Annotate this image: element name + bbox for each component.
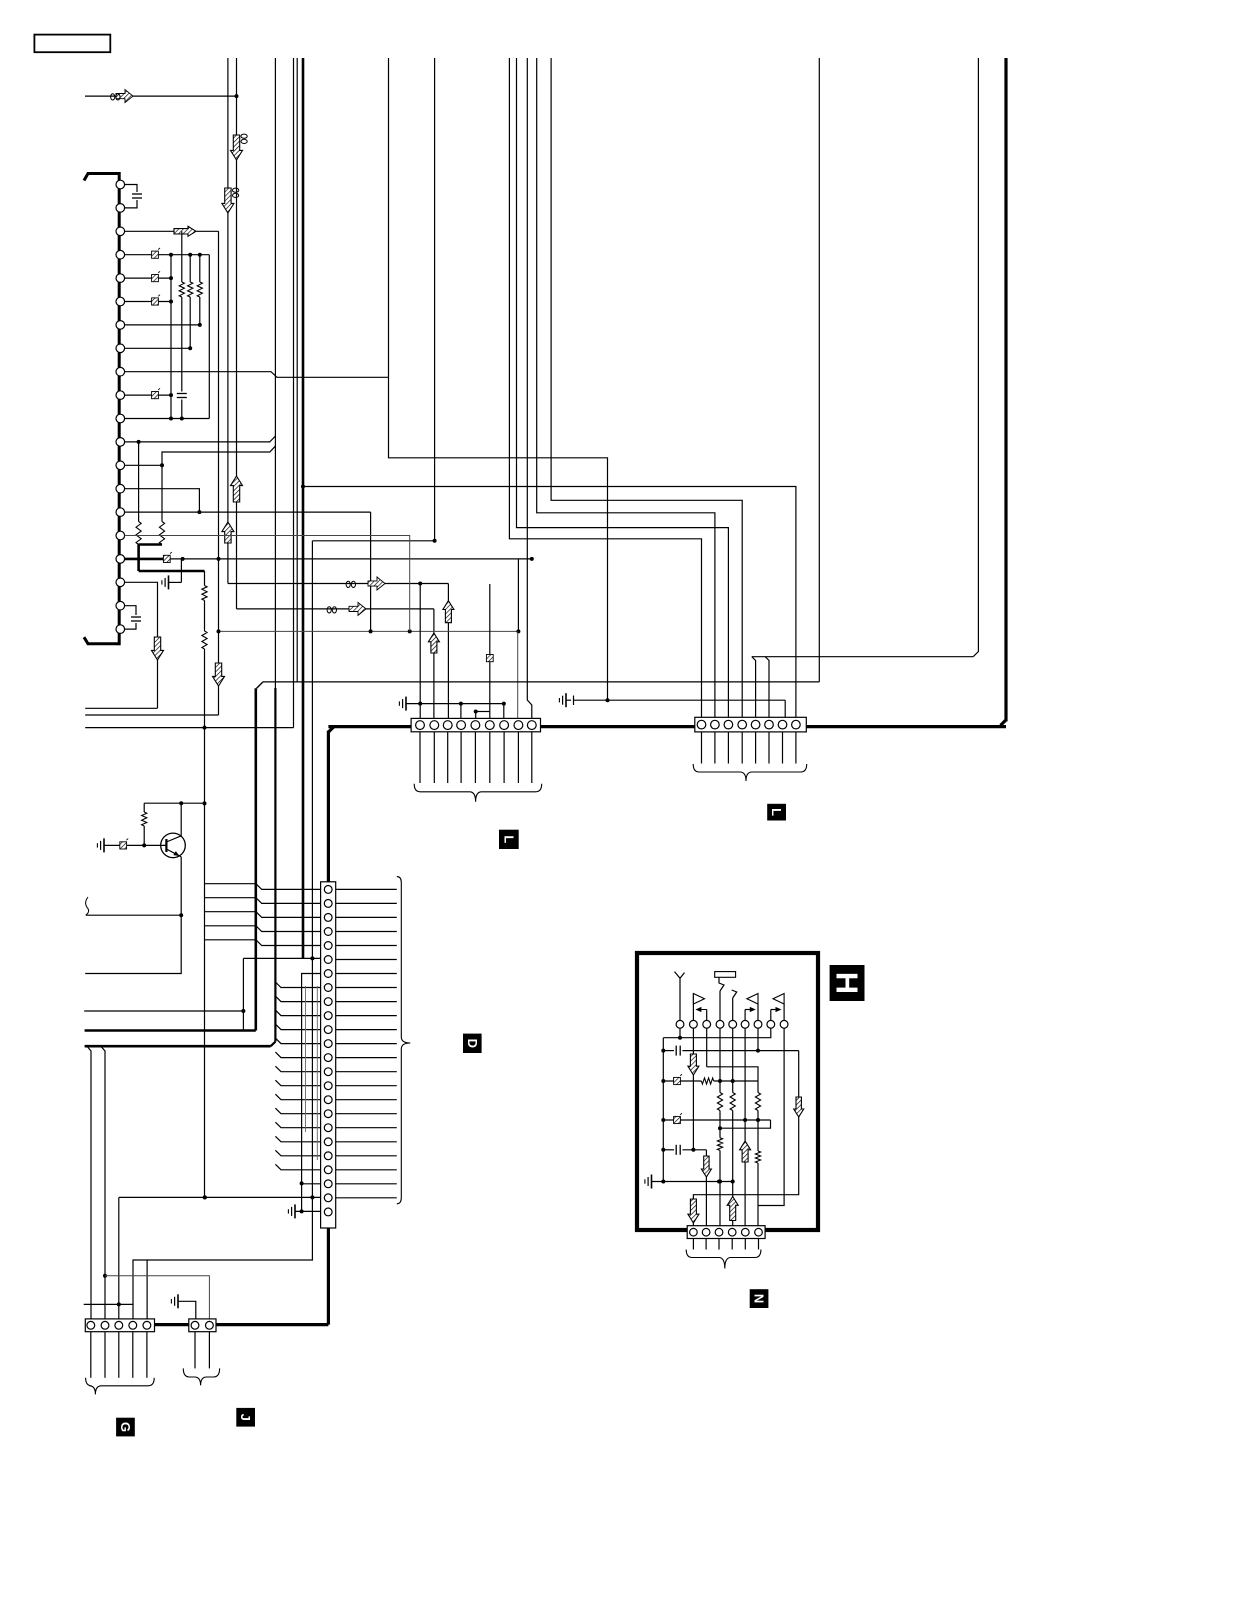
diag to thick A <box>257 682 263 688</box>
H down arrow on c2 stem <box>692 1028 694 1150</box>
H c4 column resistor RH4 and dots <box>719 1111 721 1138</box>
pin11 row <box>125 418 210 420</box>
CN-2pin tails <box>194 1332 196 1369</box>
pin6 row bead <box>125 301 171 303</box>
bus line V15 x819.3 <box>818 58 820 682</box>
svg-text:D: D <box>465 1039 480 1048</box>
wire x420.2 to 9pin pin1 <box>419 584 421 720</box>
signal line y96 with arrow tag <box>85 95 237 97</box>
resistor R8 feedback <box>143 803 145 812</box>
wire x517.7 corner down to 9pin pin8 <box>517 631 519 719</box>
wire y486.5 to 8pin pin8 <box>301 485 305 489</box>
strip west feeders pins8-21 from V3 <box>275 982 320 988</box>
thick line A x255.8 <box>255 688 258 1030</box>
thick bus corner x328.4 down to strip <box>328 727 334 733</box>
up arrow on V2 y476-502 <box>231 476 243 502</box>
bus line V12 x527.3 to strip pin9 <box>527 58 532 719</box>
ground-capacitor G3 y700.2 <box>565 693 567 707</box>
H row y1050.6 with capacitor <box>663 1050 674 1052</box>
pin19-20 capacitor C3 loop <box>125 606 136 615</box>
resistor R6 x204.5 <box>202 586 207 601</box>
resistor R5 x162 <box>159 522 164 545</box>
connector CN-2pin body <box>189 1319 216 1332</box>
bus line V2 x236.5 <box>236 58 238 609</box>
H row y1081 with bead and resistor <box>663 1080 701 1082</box>
bus line V3 x275.4 lower thick <box>274 688 276 1042</box>
bus line V9 x434.6 to bridge <box>434 58 436 541</box>
wire x489.8 with bead to 9pin pin6 <box>489 584 491 719</box>
wire y803.2 collector top <box>144 802 204 804</box>
H pin2 stem pennant and arrow <box>692 994 694 1021</box>
bus line V1 x227.9 <box>227 58 229 584</box>
connector CN-5pin pins <box>87 1321 95 1329</box>
pin17 row thick with bead <box>125 558 164 561</box>
bus line V14 x551.1 to 8pin pin4 <box>551 58 742 717</box>
bus line V17 x1006 thick to bus corner <box>1004 58 1007 721</box>
thick line below strip <box>327 1228 330 1325</box>
H pin5 stem with break <box>732 998 734 1020</box>
label box N <box>750 1289 769 1308</box>
resistor R4 x138.6 <box>136 522 141 545</box>
wire x433.9 corner down to 9pin pin2 <box>433 609 435 719</box>
pin9 row with jog east to V8 <box>125 372 389 378</box>
connector CN-2pin pins <box>191 1321 199 1329</box>
H row y1120 <box>663 1119 770 1121</box>
wire y958.4 row into strip pin6 <box>243 957 320 959</box>
CN-8pin tails <box>701 732 703 764</box>
H pin4 stem with break <box>719 991 721 1020</box>
strip connector pins (24) <box>324 886 332 894</box>
wire x204.5 long down <box>204 649 206 1197</box>
pin10 row bead <box>125 394 171 396</box>
corner x785.2 to 8pin pin7 <box>784 700 786 717</box>
H resistor RH2 x732.7 <box>732 1028 734 1092</box>
H crystal <box>715 972 736 978</box>
connector CN-5pin body <box>85 1319 154 1332</box>
H c3 stem row y1066.8 <box>706 1028 708 1067</box>
H pin9 stem pennant <box>783 1004 785 1020</box>
bus line V13 x536.7 to 8pin pin2 <box>537 58 715 717</box>
svg-text:L: L <box>769 808 784 816</box>
label box H <box>830 965 865 1001</box>
pin12 row with chamfer join to V3 <box>125 436 276 442</box>
bus line V3 x275.4 upper <box>274 58 276 688</box>
ground G1 via wire east to x181.4 <box>180 559 182 583</box>
strip brace east <box>397 877 411 1204</box>
step row y711.5 to 9pin pin5 <box>476 711 490 713</box>
wire y708.3 <box>85 707 157 709</box>
light verticals near strip <box>305 986 307 1132</box>
bus line V8 x388.5 <box>389 58 608 700</box>
H resistor RH5 x758 lower <box>757 1111 759 1152</box>
strip pin22 feeder line <box>302 1183 321 1185</box>
resistor R2 x190.2 <box>189 255 191 282</box>
H row y1037.7 <box>663 1028 771 1038</box>
pin3 row with arrow to V-218.5 <box>125 230 219 232</box>
CN-5pin tails <box>90 1332 92 1378</box>
CN-9pin tails <box>419 732 421 783</box>
signal row y583.5 arrow 00 <box>228 583 449 585</box>
strip pin23 long feeder row <box>119 1196 321 1198</box>
H top pins (9 circles) <box>676 1020 684 1028</box>
branch x90.8 to 5pin c1 <box>87 1046 91 1319</box>
branch x105 to 5pin c2 <box>101 1046 105 1319</box>
label box G <box>116 1418 135 1437</box>
strip connector body <box>321 882 336 1228</box>
strip east tails <box>336 888 397 890</box>
resistor R3 x199.8 <box>199 255 201 282</box>
up arrow on x433.9 <box>428 633 439 653</box>
bus line V7 x312.35 from bridge <box>311 541 313 1198</box>
ground G5 for 2pin c1 <box>177 1294 179 1308</box>
pin18 row corner down w/ down arrow <box>125 582 158 708</box>
label box J <box>236 1408 255 1427</box>
svg-text:G: G <box>118 1422 133 1432</box>
wire x171 vertical pins4-11 <box>170 255 172 419</box>
pin14 row corner down <box>125 489 200 512</box>
bus line V4 x293.5 corner to y727.6 <box>293 58 295 728</box>
H bottom tails <box>692 1239 694 1250</box>
resistor chain x204.5 top <box>204 571 206 586</box>
wire x147.1 to 5pin c5 <box>146 1260 148 1319</box>
wire y915.2 from page edge arc <box>86 897 89 915</box>
resistor R7 x204.5 <box>202 631 207 649</box>
connector CN-9pin body <box>411 718 540 731</box>
wire x218.5 down from pin3 <box>218 231 220 715</box>
CN-9pin brace <box>414 784 542 802</box>
H left rail <box>662 1038 664 1182</box>
connector CN-8pin pins <box>697 720 706 729</box>
ground G4 transistor base <box>103 838 105 852</box>
down arrow with 00 on V1 <box>233 188 239 197</box>
pin16 row x409.7 drop <box>125 536 410 632</box>
left connector body thick line <box>84 174 119 181</box>
bead on base wire <box>120 842 127 849</box>
H pin1 stem and fork <box>679 978 681 1020</box>
bus line V6 x303 thick <box>302 58 305 958</box>
left connector pins (20 circles) <box>116 180 125 189</box>
wire x518.4 from pin17 row <box>517 559 519 632</box>
CN-5pin brace <box>86 1378 155 1395</box>
down arrow with 00 on V2 <box>241 134 247 143</box>
wire x209.3 down <box>208 255 210 419</box>
bus line V5 x297.2 <box>296 58 298 682</box>
H pin7 stem pennant <box>757 1004 759 1020</box>
CN-2pin brace <box>183 1368 219 1385</box>
bus line V10 x509.4 to 8pin pin1 <box>509 58 701 717</box>
pin5 row bead <box>125 277 171 279</box>
H bottom brace <box>686 1250 761 1269</box>
H resistor RH3 x758 <box>755 1093 760 1111</box>
H resistor RH1 x720 <box>719 1028 721 1092</box>
svg-text:N: N <box>752 1294 767 1303</box>
strip pin24 ground <box>294 1204 296 1218</box>
resistor R1 x181.8 <box>181 231 183 282</box>
pin7 row <box>125 324 200 326</box>
svg-text:H: H <box>830 972 865 994</box>
up arrow on V1 y522-543 <box>222 522 234 543</box>
wire x162 y452 branch with chamfer join to V3 <box>162 446 275 521</box>
strip pin7 feeder corner x301.6 <box>302 974 321 1212</box>
connector CN-9pin pins <box>416 721 425 730</box>
capacitor C1 loop pins1-2 <box>125 185 137 193</box>
thick link resistor bottoms <box>139 543 162 546</box>
wire x138.6 down to resistor R4 <box>138 442 140 522</box>
H ground row <box>651 1175 653 1189</box>
capacitor C2 x181.8 <box>181 297 183 392</box>
page title box (empty) <box>34 35 110 53</box>
gray row y631.4 to 9pin pin8 <box>219 630 518 632</box>
gray wire y1275.8 to 2pin c2 <box>105 1276 209 1319</box>
pin8 row <box>125 347 191 349</box>
pin13 row to resistor R5 <box>125 464 162 466</box>
CN-8pin brace <box>693 764 807 781</box>
pin4 row: bead, resistor taps <box>125 254 210 256</box>
wire y727.6 thin <box>85 727 293 729</box>
H c6 column with up arrow <box>744 1028 746 1120</box>
H bottom connector body <box>687 1226 765 1239</box>
wire y715 <box>85 714 218 716</box>
H pin8 stem arrow east <box>770 1010 772 1021</box>
wire y656.7 with elbows to 8pin pins5-6 <box>752 656 973 658</box>
H path P2 from pin9 <box>758 1028 784 1205</box>
wire y1011 from edge <box>84 1010 243 1012</box>
H row y1149.8 capacitor <box>663 1149 674 1151</box>
H gray path P1 to pin b1 with arrows <box>693 1051 798 1229</box>
arrow tag 00 right at y96 <box>116 90 133 103</box>
bridge y540.8 from V9 to V7 <box>312 540 434 542</box>
wire x448.4 corner down to 9pin pin3 <box>447 584 449 720</box>
ground G2 with row to 9pin pins 1/4/7 <box>405 697 407 711</box>
label box D <box>463 1034 482 1053</box>
wire y1304.4 <box>84 1303 134 1305</box>
signal row y608.9 arrow 00 <box>237 608 434 610</box>
H bottom connector pins <box>690 1228 698 1236</box>
thick bus wire y726.6 <box>328 725 411 728</box>
up arrow on x448.4 <box>443 601 454 623</box>
emitter wire down and west <box>85 857 181 974</box>
connector CN-8pin body <box>695 717 807 732</box>
block H outline <box>637 953 818 1230</box>
H pin6 stem arrow east <box>744 1010 746 1021</box>
down arrow on x218.5 <box>213 663 225 686</box>
pin15 row east to corner x370.6 <box>125 511 371 513</box>
thick wire y1046.2 <box>85 1045 271 1048</box>
svg-text:L: L <box>501 835 516 843</box>
thick wire y1030.5 <box>85 1029 256 1032</box>
bus line V11 x516.5 to 8pin pin3 <box>517 58 729 717</box>
svg-text:J: J <box>238 1414 253 1421</box>
label box L1 <box>499 830 519 849</box>
wire x118.8 to 5pin c3 <box>118 1197 120 1319</box>
V7 lower corner path to 5pin c4 <box>133 1197 312 1319</box>
wire y681.9 long <box>263 681 819 683</box>
wire x243.4 <box>242 958 244 1030</box>
H c5 column to pin b4 with up arrow <box>732 1111 734 1229</box>
strip west feeders pins1-5 <box>205 884 321 890</box>
label box L2 <box>767 804 786 821</box>
transistor Q1 <box>161 833 186 858</box>
bus line V16 x978.4 with corner to y656.7 <box>973 58 978 657</box>
